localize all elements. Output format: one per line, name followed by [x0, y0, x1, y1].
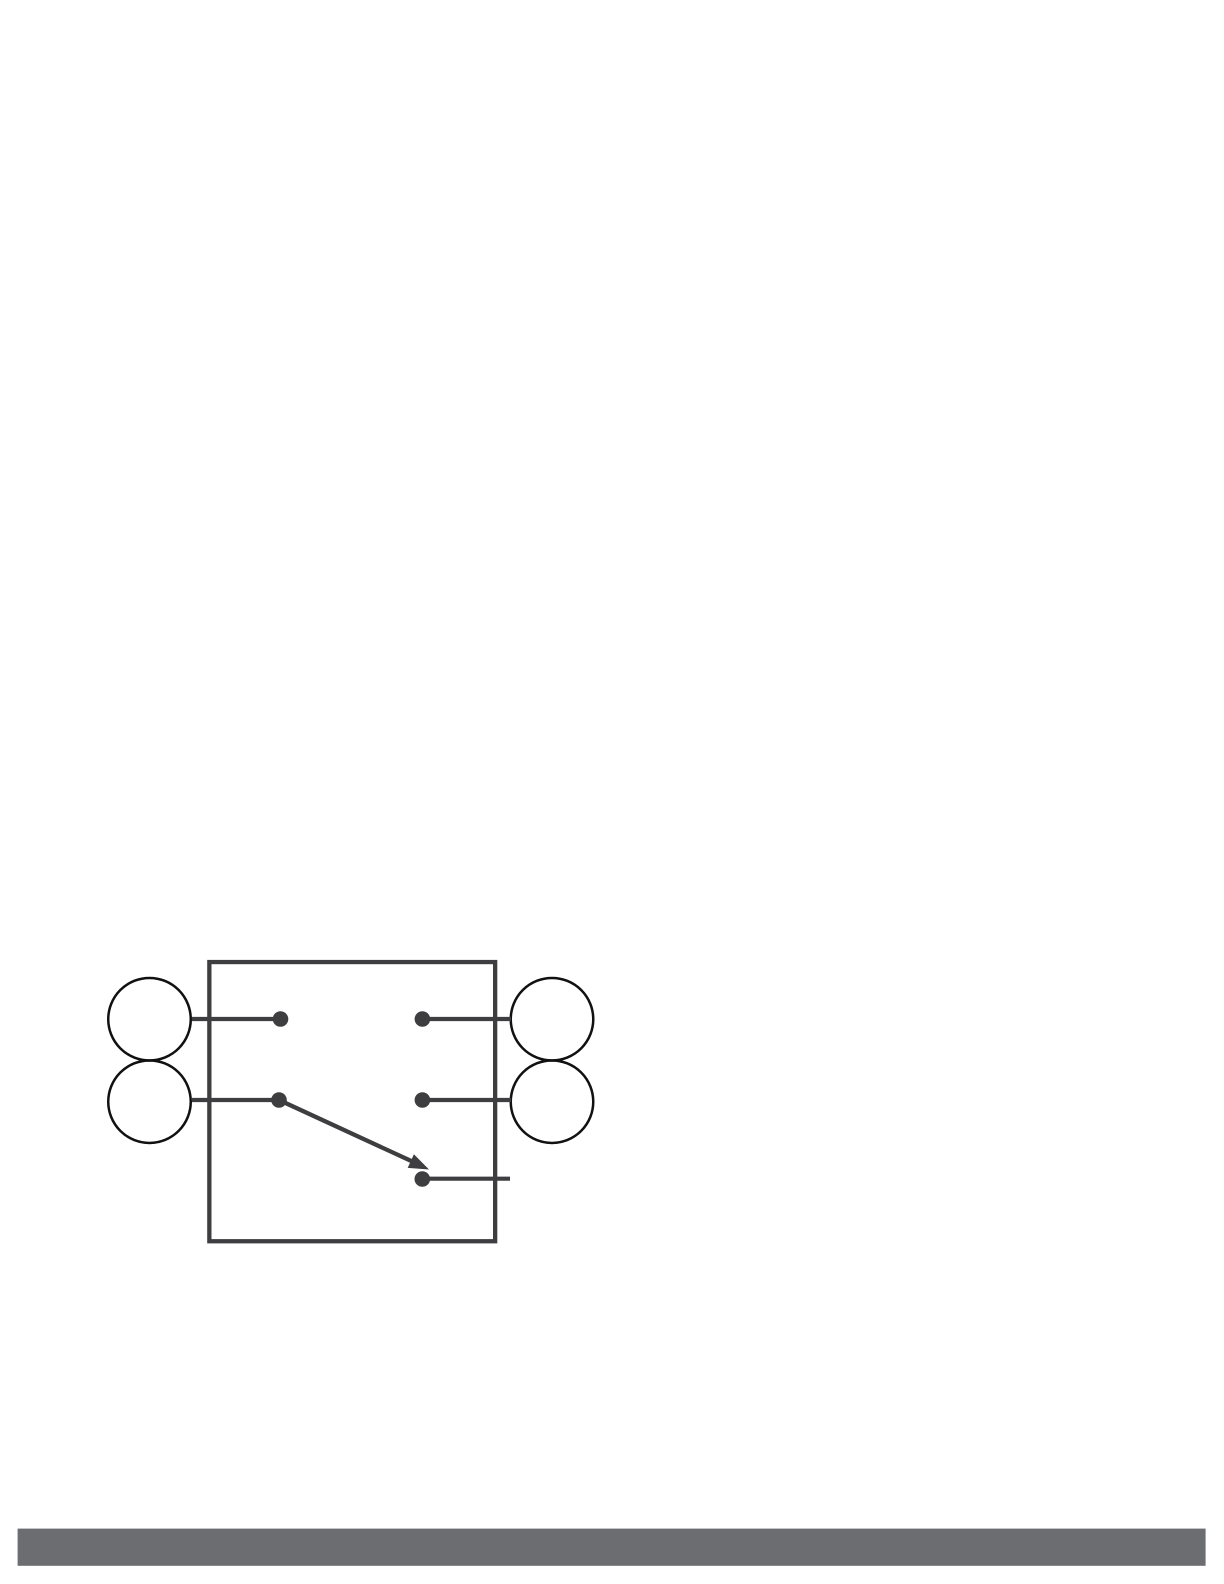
lamp circle bottom-left [108, 1060, 191, 1143]
wire middle-right lead [422, 1098, 511, 1102]
switch body box [209, 962, 495, 1241]
terminal node bottom [415, 1171, 431, 1187]
switch arm arrowhead [408, 1154, 429, 1169]
lamp circle top-left [108, 978, 191, 1060]
wire top-right lead [422, 1017, 511, 1021]
switch arm arrow shaft [279, 1100, 413, 1162]
terminal node middle-left [271, 1092, 287, 1108]
lamp circle top-right [511, 978, 594, 1060]
terminal node top-right [415, 1011, 431, 1027]
wire bottom lead [422, 1177, 510, 1181]
wire top-left lead [192, 1017, 281, 1021]
terminal node top-left [273, 1011, 289, 1027]
terminal node middle-right [415, 1092, 431, 1108]
wire middle-left lead [192, 1098, 279, 1102]
footer bar [18, 1529, 1206, 1566]
lamp circle bottom-right [511, 1060, 594, 1143]
